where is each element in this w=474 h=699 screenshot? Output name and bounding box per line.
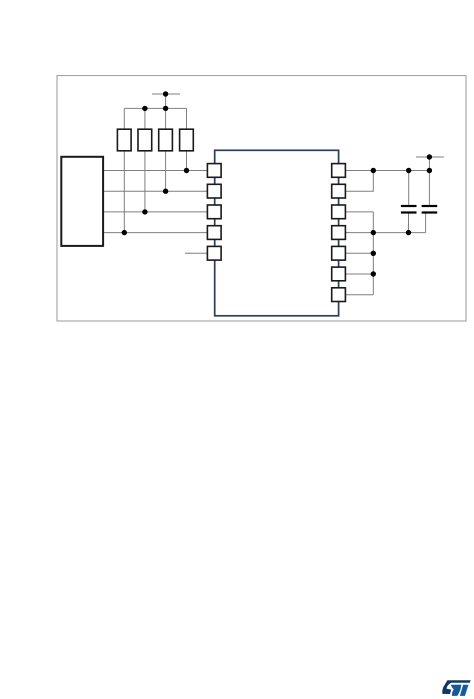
wire pin E stub — [345, 252, 373, 254]
junction dot R3/pin2 — [163, 189, 168, 194]
wire bus to resistor tops — [124, 107, 186, 109]
wire C2 bottom lead — [425, 214, 427, 233]
capacitor C1 — [401, 206, 417, 213]
junction dot C2 top — [427, 168, 432, 173]
junction dot VCC left — [163, 91, 168, 96]
resistor R4 — [180, 129, 194, 151]
pin D right — [332, 226, 346, 240]
junction dot bus/pinD — [371, 230, 376, 235]
junction dot R1/pin4 — [122, 230, 127, 235]
wire pin C stub — [345, 211, 373, 213]
supply rail VCC top-left — [152, 93, 180, 95]
wire pin G stub — [345, 294, 373, 296]
resistor R1 — [117, 129, 131, 151]
pin C right — [332, 205, 346, 219]
pin 5 left — [207, 246, 221, 260]
junction dot R2/pin3 — [142, 209, 147, 214]
resistor R3 — [159, 129, 173, 151]
wire block to pin4 — [104, 232, 208, 234]
pin 1 left — [207, 164, 221, 178]
wire block to pin1 — [104, 170, 208, 172]
capacitor C2 — [422, 206, 438, 213]
wire — [144, 108, 146, 129]
wire R2 bottom — [144, 151, 146, 212]
supply rail VCC right — [416, 156, 444, 158]
pin 2 left — [207, 184, 221, 198]
IC U1 body — [215, 150, 339, 315]
pin F right — [332, 267, 346, 281]
connector block J1 — [61, 157, 103, 246]
wire C1 top lead — [408, 171, 410, 205]
junction dot VCC right — [427, 154, 432, 159]
pin 4 left — [207, 226, 221, 240]
junction dot C1 bottom — [406, 230, 411, 235]
wire — [123, 108, 125, 129]
pin E right — [332, 246, 346, 260]
figure frame — [57, 76, 466, 321]
wire C1 bottom lead — [408, 214, 410, 233]
junction dot right bus top — [371, 168, 376, 173]
wire R1 bottom — [123, 151, 125, 233]
wire block to pin3 — [104, 211, 208, 213]
junction dot bus/pinE — [371, 251, 376, 256]
wire — [428, 157, 430, 171]
wire pin A to supply — [345, 170, 429, 172]
junction dot — [142, 106, 147, 111]
junction dot — [163, 106, 168, 111]
wire stub pin5 — [185, 252, 208, 254]
pin 3 left — [207, 205, 221, 219]
junction dot bus/pinF — [371, 271, 376, 276]
wire pin D to caps — [345, 232, 425, 234]
wire pin F stub — [345, 273, 373, 275]
wire vertical bus right — [372, 212, 374, 295]
wire pin B stub — [345, 171, 373, 192]
ST logo — [442, 680, 470, 696]
wire — [165, 108, 167, 129]
wire — [186, 108, 188, 129]
pin A right — [332, 164, 346, 178]
wire R3 bottom — [165, 151, 167, 191]
wire R4 bottom — [186, 151, 188, 171]
resistor R2 — [138, 129, 152, 151]
junction dot R4/pin1 — [184, 168, 189, 173]
wire — [165, 94, 167, 108]
wire C2 top lead — [428, 171, 430, 205]
junction dot C1 top — [406, 168, 411, 173]
pin G right — [332, 288, 346, 302]
wire block to pin2 — [104, 190, 208, 192]
pin B right — [332, 184, 346, 198]
